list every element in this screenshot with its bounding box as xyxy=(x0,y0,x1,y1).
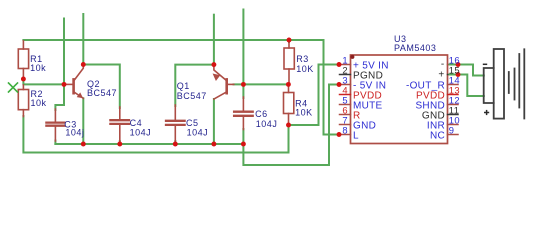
wire vertical stub node B4 to C6 xyxy=(242,10,244,99)
svg-text:C4: C4 xyxy=(130,118,143,128)
IC U3 PAM5403 body xyxy=(351,55,448,144)
wire vertical stub node B2 xyxy=(82,14,84,65)
pin 11 stub xyxy=(448,114,459,116)
wire vertical stub node B3 xyxy=(213,15,215,65)
node R3 top junction xyxy=(287,38,292,43)
pin 1 stub xyxy=(340,64,351,66)
wire Q2 emitter down xyxy=(82,98,84,144)
resistor R3 xyxy=(284,42,294,85)
svg-text:L: L xyxy=(353,131,359,142)
capacitor C4 xyxy=(110,107,129,142)
svg-text:9: 9 xyxy=(449,125,455,136)
svg-text:C5: C5 xyxy=(186,118,199,128)
wire top rail xyxy=(23,39,323,41)
pin 12 stub xyxy=(448,104,459,106)
node Q2 base junction xyxy=(62,82,67,87)
capacitor C6 xyxy=(234,97,253,130)
pin 13 stub xyxy=(448,94,459,96)
speaker LS1 xyxy=(484,49,525,119)
svg-text:+: + xyxy=(438,69,444,80)
pin 16 stub xyxy=(448,64,459,66)
wire pin16 over stub xyxy=(450,64,459,66)
pin 14 stub xyxy=(448,84,459,86)
node pin 16 xyxy=(456,62,461,67)
resistor R1 xyxy=(18,41,28,79)
svg-text:104J: 104J xyxy=(187,128,209,138)
node Q1 emitter junction xyxy=(211,62,216,67)
pin 6 stub xyxy=(340,114,351,116)
svg-text:R3: R3 xyxy=(296,54,309,64)
pin 5 stub xyxy=(340,104,351,106)
wire pin16 to speaker minus xyxy=(450,65,484,76)
node rail A C6 xyxy=(241,142,246,147)
wire Q2 collector to C4 xyxy=(83,65,120,109)
wire C6 bottom to -5V rail xyxy=(243,85,339,166)
svg-text:10K: 10K xyxy=(296,64,314,74)
svg-text:104J: 104J xyxy=(256,119,278,129)
label speaker plus xyxy=(484,110,489,115)
pin 15 stub xyxy=(448,74,459,76)
svg-text:10k: 10k xyxy=(31,98,47,108)
svg-text:104j: 104j xyxy=(65,127,84,137)
svg-text:Q1: Q1 xyxy=(177,81,190,91)
pin 3 stub xyxy=(340,84,351,86)
resistor R2 xyxy=(18,85,28,117)
wire Q1 emitter to C5 xyxy=(175,65,214,106)
wire C3 bottom lead green xyxy=(54,141,56,145)
wire R1 R2 junction to Q2 base xyxy=(23,79,64,84)
label speaker minus xyxy=(483,63,487,65)
wire R2 bottom rail to R4 to pin1 xyxy=(23,65,339,153)
wire rail to pin8 L xyxy=(324,40,340,135)
svg-text:PAM5403: PAM5403 xyxy=(394,43,436,53)
node Q2 collector junction xyxy=(81,62,86,67)
node pin 3 xyxy=(337,82,342,87)
node X marker unconnected xyxy=(9,83,18,92)
node pin 15 xyxy=(456,72,461,77)
pin 8 stub xyxy=(340,134,351,136)
pin 4 stub xyxy=(340,94,351,96)
pin 9 stub xyxy=(448,134,459,136)
wire C4 bottom lead green xyxy=(119,141,121,144)
node rail A Q1 collector xyxy=(211,142,216,147)
wire C5 bottom lead green xyxy=(174,141,176,144)
node pin 8 xyxy=(337,132,342,137)
capacitor C5 xyxy=(166,105,185,142)
node R3-R4 junction xyxy=(286,82,291,87)
svg-text:BC547: BC547 xyxy=(87,88,117,98)
svg-text:BC547: BC547 xyxy=(177,91,207,101)
node rail A Q2 emitter xyxy=(81,142,86,147)
svg-text:C6: C6 xyxy=(255,109,268,119)
resistor R4 xyxy=(284,85,294,125)
svg-text:-: - xyxy=(441,59,445,70)
node pin 1 xyxy=(337,62,342,67)
wire pin15 over stub xyxy=(450,74,459,76)
wire R3 top green stub xyxy=(288,40,290,42)
pin 7 stub xyxy=(340,124,351,126)
node rail A C5 xyxy=(173,142,178,147)
pin 10 stub xyxy=(448,124,459,126)
wire Q1 collector down xyxy=(213,99,215,144)
pin 2 stub xyxy=(340,74,351,76)
svg-text:104J: 104J xyxy=(130,128,152,138)
IC U3 origin dot xyxy=(350,55,354,59)
transistor Q1 xyxy=(213,65,234,99)
transistor Q2 xyxy=(66,65,83,99)
svg-text:NC: NC xyxy=(430,131,445,142)
node rail A C4 xyxy=(117,142,122,147)
wire vertical stub node B1 xyxy=(55,19,64,111)
node R1-R2 junction xyxy=(21,77,26,82)
wire pin15 to speaker plus xyxy=(450,75,484,97)
wire base net Q1 R3 R4 xyxy=(234,83,289,85)
node R4 bottom junction xyxy=(286,123,291,128)
svg-text:10K: 10K xyxy=(295,108,313,118)
wire ground rail A xyxy=(55,143,243,145)
node C6 top junction xyxy=(241,82,246,87)
svg-text:8: 8 xyxy=(342,125,348,136)
capacitor C3 xyxy=(46,109,64,141)
svg-text:10k: 10k xyxy=(30,63,46,73)
